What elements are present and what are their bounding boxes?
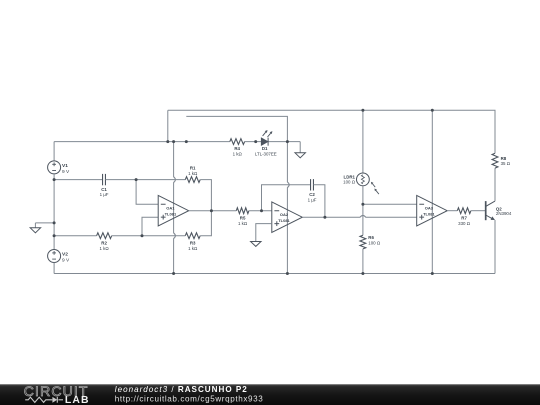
svg-text:1 µF: 1 µF	[308, 198, 317, 203]
wire: OA3 output to R7	[447, 210, 457, 212]
svg-text:100 Ω: 100 Ω	[368, 241, 381, 246]
svg-text:C2: C2	[309, 192, 315, 197]
wire: bottom rail	[54, 273, 495, 275]
wire	[53, 174, 55, 180]
svg-text:OA3: OA3	[425, 206, 434, 211]
svg-text:LAB: LAB	[65, 395, 90, 405]
wire: C2 feedback loop up-leg	[262, 185, 311, 211]
svg-text:OA1: OA1	[166, 206, 175, 211]
wire: C1 row	[54, 179, 103, 181]
wire: left rail down to V2	[53, 180, 55, 250]
wire: emitter down to bottom rail	[494, 220, 496, 274]
resistor R4	[230, 139, 245, 145]
wire	[286, 187, 288, 273]
wire: LDR column from top rail	[362, 110, 364, 173]
wire	[268, 141, 300, 143]
ground right of D1	[299, 142, 301, 153]
wire: long vertical through OA3 (top rail to bottom rail)	[431, 110, 433, 273]
ground below OA2	[251, 242, 261, 247]
svg-text:1 kΩ: 1 kΩ	[188, 246, 198, 251]
capacitor C2	[310, 179, 312, 190]
node: D1 cathode junction	[286, 140, 289, 143]
node: OA3 column on top rail	[431, 109, 434, 112]
wire: V1 positive row (main row with R4/D1)	[54, 141, 230, 143]
svg-text:V2: V2	[62, 252, 68, 258]
svg-text:R1: R1	[190, 165, 196, 170]
node: OA1 output junction	[210, 209, 213, 212]
svg-text:leonardoct3 / RASCUNHO P2: leonardoct3 / RASCUNHO P2	[115, 385, 248, 394]
wire	[173, 182, 175, 233]
wire	[366, 216, 417, 218]
node A: LDR bottom / OA3- junction	[361, 203, 364, 206]
ground near V1/V2	[35, 222, 54, 224]
svg-text:R6: R6	[368, 235, 374, 240]
svg-text:R2: R2	[101, 240, 107, 245]
op-amp OA1	[158, 195, 189, 226]
wire: collector up to R8	[494, 168, 496, 201]
node: wire1 corner on main row	[166, 140, 169, 143]
wire: LDR bottom down to OA3- junction and R6	[362, 186, 364, 236]
node: R6 on bottom rail	[361, 272, 364, 275]
resistor R1	[185, 177, 200, 183]
node: OA1 column top on main row	[172, 140, 175, 143]
wire hop	[360, 215, 366, 217]
wire: R3 to output junction	[200, 211, 211, 236]
wire: long vertical through OA1 (V1 row to bottom rail)	[173, 142, 175, 177]
wire: OA2 output row to OA3 non-inverting input	[303, 216, 361, 218]
wire: R2/R3 row	[54, 235, 97, 237]
wire hop	[174, 233, 176, 239]
node: OA2 column on bottom rail	[286, 272, 289, 275]
svg-text:1 kΩ: 1 kΩ	[238, 221, 248, 226]
wire	[142, 235, 185, 237]
wire: left rail (V1/V2 column)	[53, 142, 55, 161]
wire: OA1 inverting input branch	[136, 180, 158, 205]
node: R4-D1 junction	[254, 140, 257, 143]
wire: R7 to Q2 base	[471, 210, 486, 212]
node: OA1 plus branch on R2 row	[141, 234, 144, 237]
node: OA1 inverting branch tap	[135, 178, 138, 181]
svg-text:1 kΩ: 1 kΩ	[100, 246, 110, 251]
svg-text:1 kΩ: 1 kΩ	[233, 151, 243, 156]
wire: OA1 non-inverting input branch	[142, 217, 158, 236]
wire	[173, 238, 175, 273]
footer bar	[0, 384, 540, 405]
wire hop	[287, 182, 289, 188]
wire: second top rail from x186 to D1 cathode column	[186, 116, 287, 141]
capacitor C1	[102, 174, 104, 185]
svg-text:http://circuitlab.com/cg5wrqpt: http://circuitlab.com/cg5wrqpthx933	[115, 394, 264, 403]
node: OA3 column on bottom rail	[431, 272, 434, 275]
op-amp OA2	[272, 202, 303, 233]
photoresistor LDR1	[357, 173, 370, 186]
node: left rail x R2 row	[53, 234, 56, 237]
resistor R7	[457, 208, 471, 214]
wire: OA1 output to R5	[189, 210, 237, 212]
svg-text:V1: V1	[62, 163, 68, 169]
svg-text:TL081: TL081	[278, 218, 290, 223]
wire	[245, 141, 262, 143]
svg-text:OA2: OA2	[280, 212, 289, 217]
transistor Q2	[485, 201, 487, 220]
svg-text:D1: D1	[262, 146, 268, 151]
node: left rail ground tap	[53, 221, 56, 224]
svg-text:R5: R5	[240, 215, 246, 220]
svg-text:2N3904: 2N3904	[496, 211, 512, 216]
wire: stub down from wire1 corner to main row	[167, 110, 169, 141]
wire: top rail from node above OA1 column to top-right corner	[168, 110, 495, 153]
svg-text:LTL-307EE: LTL-307EE	[255, 151, 277, 156]
wire: OA2 non-inverting input to ground	[256, 224, 272, 242]
wire	[53, 263, 55, 274]
resistor R8	[492, 153, 498, 168]
resistor R5	[236, 208, 249, 214]
node: C2 down-leg junction	[323, 216, 326, 219]
svg-text:35 Ω: 35 Ω	[501, 161, 511, 166]
svg-text:9 V: 9 V	[62, 258, 70, 264]
svg-text:R3: R3	[190, 240, 196, 245]
svg-text:R7: R7	[461, 215, 467, 220]
wire: junction to OA3 inverting input	[363, 203, 417, 205]
resistor R3	[185, 233, 200, 239]
svg-text:1 kΩ: 1 kΩ	[188, 171, 198, 176]
node: wire2 corner on main row	[185, 140, 188, 143]
wire	[106, 179, 186, 181]
svg-text:9 V: 9 V	[62, 169, 70, 175]
voltage source V2	[48, 250, 61, 263]
node: C2 up-leg junction	[260, 209, 263, 212]
wire: R5 to OA2 inverting input	[249, 210, 272, 212]
svg-text:TL081: TL081	[165, 211, 177, 216]
svg-text:100 Ω: 100 Ω	[343, 180, 356, 185]
svg-text:R4: R4	[234, 146, 240, 151]
node: OA1 column on bottom rail	[172, 272, 175, 275]
wire: R6 to bottom rail	[362, 249, 364, 274]
LED D1	[261, 138, 268, 145]
resistor R2	[97, 233, 112, 239]
svg-text:C1: C1	[101, 187, 107, 192]
svg-text:TL081: TL081	[423, 211, 435, 216]
node: LDR column on top rail	[361, 109, 364, 112]
wire: R1 to output junction	[200, 180, 211, 211]
wire: C2 feedback loop down-leg	[314, 185, 325, 217]
resistor R6	[360, 235, 366, 249]
svg-text:1 µF: 1 µF	[100, 192, 109, 197]
voltage source V1	[48, 161, 61, 174]
svg-text:330 Ω: 330 Ω	[458, 221, 471, 226]
wire: long vertical through OA2 (from D1 cathode down to bottom rail)	[286, 142, 288, 183]
wire	[112, 235, 142, 237]
node: left rail x C1 row	[53, 178, 56, 181]
wire hop	[174, 177, 176, 183]
op-amp OA3	[417, 195, 448, 226]
